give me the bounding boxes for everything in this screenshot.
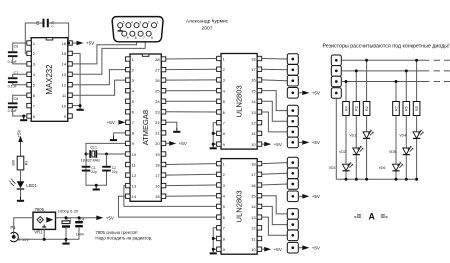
DB9 pin 5 [118, 20, 125, 27]
DB9 pin 9 [122, 31, 129, 40]
wire bus to R5 [416, 60, 418, 101]
U4 pin 10 stub [257, 247, 262, 251]
U2 pin 1 stub [27, 41, 32, 45]
wire U3 pin 16 to X2 pin 3 [262, 79, 288, 82]
U1 pin 27 stub [161, 67, 166, 71]
DB9 connector X1 body [112, 17, 163, 42]
U1 pin 19 stub [161, 152, 166, 156]
connector X5 pin 1 [287, 209, 298, 220]
svg-text:14: 14 [251, 204, 256, 209]
junction rail [365, 178, 368, 181]
U1 pin 11 stub [126, 162, 131, 166]
wire crystal right plate to ATMEGA8 pin 10 [97, 153, 125, 155]
IC U1 notch [142, 54, 149, 56]
U2 pin 4 stub [27, 72, 32, 76]
U4 pin 16 stub [257, 183, 262, 187]
ground at DB9 pin 5 [118, 28, 123, 32]
U1 pin 3 stub [126, 78, 131, 82]
capacitor C7 [8, 77, 18, 83]
resistor R5 [413, 102, 420, 116]
U3 pin 18 stub [257, 56, 262, 60]
wire to C2 [106, 154, 108, 166]
U2 pin 3 stub [27, 62, 32, 66]
junction rail/C3 [65, 216, 68, 219]
U1 pin 14 stub [126, 194, 131, 198]
svg-text:R1: R1 [24, 161, 28, 166]
U1 pin 2 stub [126, 67, 131, 71]
U1 pin 15 stub [161, 194, 166, 198]
svg-text:5: 5 [123, 20, 125, 24]
junction bus/R7 [395, 80, 398, 83]
bus row 2 dashed continuation [434, 70, 450, 72]
U4 pin 13 stub [257, 215, 262, 219]
wire ATMEGA8 pin 27 to U3 pin 2 [166, 68, 217, 70]
connector X5 pin 4 [287, 242, 298, 253]
wire X6 pin 4 to LED matrix common rail [335, 98, 337, 179]
U3 pin 15 stub [257, 88, 262, 92]
svg-text:12: 12 [62, 83, 67, 88]
wire R6 to VD5 [405, 116, 407, 148]
wire ATMEGA8 pin 15 to U4 pin 4 [166, 195, 217, 198]
wire ATMEGA8 pin 23 to U3 pin 6 [166, 111, 217, 113]
svg-text:ULN2803: ULN2803 [235, 190, 244, 222]
wire C6 to MAX232 pin 1 [13, 43, 27, 51]
U4 pin 3 stub [217, 183, 222, 187]
U1 pin 24 stub [161, 99, 166, 103]
capacitor C3 electrolytic [62, 221, 70, 228]
wire U3 pin 18 to X2 pin 1 [262, 58, 288, 61]
ground rail wire [18, 238, 79, 240]
junction C3 ground [65, 238, 68, 241]
svg-text:LED1: LED1 [26, 183, 37, 188]
svg-text:15: 15 [251, 194, 256, 199]
svg-text:20: 20 [155, 141, 160, 146]
+5V arrow at ATMEGA8 pin 20 [169, 141, 188, 146]
U1 pin 9 stub [126, 141, 131, 145]
U3 pin 1 stub [217, 56, 222, 60]
resistor R3 [353, 102, 360, 116]
wire C7 to MAX232 pin 5 [13, 83, 27, 85]
wire VR1 output +5V rail [56, 217, 97, 219]
LED VD5 [403, 146, 414, 155]
junction rail [345, 178, 348, 181]
svg-text:24: 24 [155, 99, 160, 104]
svg-text:14: 14 [251, 99, 256, 104]
wire X5 pin 4 to +5V [298, 247, 302, 249]
svg-text:1000µ 6.3V: 1000µ 6.3V [58, 208, 79, 213]
+5V arrow at MAX232 pin 16 [77, 41, 96, 46]
U4 pin 14 stub [257, 204, 262, 208]
ground at crystal [93, 185, 100, 190]
U1 pin 21 stub [161, 131, 166, 135]
bus wire row 2 from X6 [341, 70, 429, 72]
U2 pin 5 stub [27, 83, 32, 87]
U1 pin 7 stub [126, 120, 131, 124]
junction U4 pin 9 ground [212, 248, 215, 251]
U1 pin 22 stub [161, 120, 166, 124]
ground at LED1 [17, 197, 24, 202]
U1 pin 12 stub [126, 173, 131, 177]
svg-text:ATMEGA8: ATMEGA8 [141, 110, 150, 145]
svg-text:21: 21 [155, 131, 160, 136]
wire C4 to ground rail [78, 227, 80, 240]
wire C5 to MAX232 pin 2 [25, 23, 42, 53]
LED VD2 [353, 146, 364, 155]
wire X3 pin 4 to +5V [298, 141, 302, 143]
svg-text:16: 16 [155, 183, 160, 188]
svg-text:R5: R5 [415, 106, 419, 111]
connector X2 pin 2 [287, 65, 298, 76]
junction rail end [415, 178, 418, 181]
svg-text:VD1: VD1 [349, 134, 356, 138]
wire ATMEGA8 pin 26 to U3 pin 3 [166, 79, 217, 81]
junction bus/R4 [345, 80, 348, 83]
U4 pin 18 stub [257, 161, 262, 165]
svg-text:+5V: +5V [274, 142, 283, 147]
svg-text:13: 13 [132, 183, 137, 188]
LED VD4 [413, 129, 424, 138]
svg-text:6: 6 [151, 36, 153, 40]
wire R1 to LED1 [20, 170, 22, 181]
wire U4 pin 18 to X4 pin 1 [262, 163, 288, 164]
wire R2 to VD1 [366, 116, 368, 131]
svg-text:Qz1: Qz1 [90, 145, 97, 149]
wire U4 pin 15 to X5 pin 1 [262, 196, 288, 214]
U1 pin 23 stub [161, 110, 166, 114]
U1 pin 28 stub [161, 57, 166, 61]
U1 pin 17 stub [161, 173, 166, 177]
U3 pin 8 stub [217, 131, 222, 135]
wire U3 pin 8 to ground rail [213, 132, 216, 134]
svg-text:17: 17 [251, 172, 256, 177]
U3 pin 11 stub [257, 131, 262, 135]
junction U4 pin 8 ground [212, 237, 215, 240]
wire bus to R4 [345, 82, 347, 102]
svg-text:A: A [369, 212, 376, 222]
svg-text:+5V: +5V [179, 141, 188, 146]
U2 pin 9 stub [68, 114, 73, 118]
wire VR1 common to ground rail [43, 229, 45, 239]
U4 pin 15 stub [257, 194, 262, 198]
wire caps to ground rail [86, 172, 107, 186]
wire R3 to VD2 [355, 116, 357, 148]
svg-text:VD2: VD2 [339, 150, 346, 154]
connector X3 pin 2 [287, 116, 298, 127]
wire MAX232 pin16 to +5V [72, 42, 76, 44]
wire VD4 to common rail [416, 139, 418, 179]
U1 pin 10 stub [126, 152, 131, 156]
wire C8 to MAX232 pin 8 [13, 108, 27, 116]
IC U4 body [221, 159, 257, 255]
voltage regulator VR1 7805 body [33, 212, 56, 229]
wire R4 to VD3 [345, 116, 347, 164]
svg-text:7805 сильно греется!: 7805 сильно греется! [95, 230, 137, 235]
wire U3 pin 15 to X3 pin 1 [262, 91, 288, 111]
svg-text:R7: R7 [394, 106, 398, 111]
svg-text:R2: R2 [365, 106, 369, 111]
wire U4 pin 16 to X4 pin 3 [262, 184, 288, 185]
junction pin10/pin15 ground [79, 104, 82, 107]
connector X4 pin 1 [287, 157, 298, 168]
junction U3 pin 8 ground [212, 132, 215, 135]
ground at power section [62, 239, 69, 244]
U1 pin 20 stub [161, 141, 166, 145]
VR1 common pin symbol [42, 224, 46, 227]
wire rail to C4 [78, 218, 80, 221]
+5V arrow at connector X4 [302, 194, 321, 199]
U4 pin 2 stub [217, 172, 222, 176]
U1 pin 25 stub [161, 89, 166, 93]
svg-text:2007: 2007 [202, 26, 213, 32]
U4 pin 5 stub [217, 204, 222, 208]
U3 pin 17 stub [257, 67, 262, 71]
svg-text:9: 9 [127, 36, 129, 40]
wire ATMEGA8 pin 18 to U4 pin 1 [166, 163, 217, 166]
wire MAX232 pin15 to ground rail [72, 53, 80, 105]
svg-text:100n: 100n [76, 232, 84, 236]
LED VD1 [363, 129, 374, 138]
U2 pin 8 stub [27, 114, 32, 118]
resistor R1 [17, 156, 24, 170]
svg-text:+5V: +5V [312, 245, 321, 250]
svg-text:VR1: VR1 [34, 230, 43, 235]
svg-text:11: 11 [251, 236, 256, 241]
+5V arrow at connector X3 [302, 140, 321, 145]
DB9 pin 2 [143, 20, 150, 27]
wire X4 pin 4 to +5V [298, 195, 302, 197]
wire bus to R7 [395, 82, 397, 102]
svg-text:12: 12 [251, 121, 256, 126]
svg-text:22: 22 [155, 120, 160, 125]
U3 pin 6 stub [217, 110, 222, 114]
U3 pin 13 stub [257, 110, 262, 114]
DB9 pin 3 [134, 20, 141, 27]
DB9 pin 4 [126, 20, 133, 27]
junction bus/R3 [355, 69, 358, 72]
+5V arrow at U3 pin 10 [264, 142, 283, 147]
svg-text:22p: 22p [91, 170, 97, 174]
capacitor C5 [43, 19, 49, 28]
wire ATMEGA8 pin 24 to U3 pin 5 [166, 100, 217, 102]
svg-text:3: 3 [139, 20, 141, 24]
U1 pin 4 stub [126, 89, 131, 93]
svg-text:22p: 22p [112, 170, 118, 174]
resistor R2 [363, 102, 370, 116]
junction bus/R5 [415, 59, 418, 62]
+5V arrow at U4 pin 10 [264, 247, 283, 252]
U2 pin 13 stub [68, 72, 73, 76]
wire U3 pin 13 to X3 pin 3 [262, 112, 288, 132]
connector X4 pin 2 [287, 168, 298, 179]
capacitor C8 [8, 102, 18, 108]
DB9 pin 1 [152, 20, 159, 27]
capacitor C6 [8, 51, 18, 57]
svg-text:16: 16 [251, 183, 256, 188]
junction crystal right [105, 153, 108, 156]
wire VD2 to common rail [355, 155, 357, 179]
power jack P1 [10, 232, 18, 241]
svg-text:R3: R3 [355, 106, 359, 111]
wire U4 pin 9 to ground rail [213, 248, 216, 250]
connector X2 pin 1 [287, 54, 298, 65]
U2 pin 12 stub [68, 83, 73, 87]
svg-text:12: 12 [251, 226, 256, 231]
wire U3 pin 17 to X2 pin 2 [262, 68, 288, 71]
bus row 1 dashed continuation [434, 59, 450, 61]
DB9 pin 8 [130, 31, 137, 40]
connector X4 pin 4 [287, 191, 298, 202]
LED matrix common rail wire [336, 178, 416, 180]
svg-text:VD6: VD6 [379, 166, 386, 170]
svg-text:-=: -= [354, 212, 362, 221]
wire X2 pin 4 to +5V [298, 92, 302, 94]
svg-text:16: 16 [251, 78, 256, 83]
+5V arrow at connector X2 [302, 91, 321, 96]
capacitor C1 [82, 166, 91, 172]
junction rail [395, 178, 398, 181]
svg-text:15: 15 [251, 88, 256, 93]
bus wire row 3 from X6 [341, 81, 429, 83]
svg-text:+5V: +5V [106, 216, 115, 221]
svg-text:25: 25 [155, 89, 160, 94]
wire U3 pin 7 to ground rail [213, 123, 216, 144]
svg-text:Резисторы рассчитываются под к: Резисторы рассчитываются под конкретные … [323, 43, 450, 49]
U4 pin 1 stub [217, 161, 222, 165]
U4 pin 8 stub [217, 236, 222, 240]
svg-text:13: 13 [251, 215, 256, 220]
wire VD1 to common rail [366, 139, 368, 179]
U1 pin 16 stub [161, 183, 166, 187]
svg-text:15: 15 [62, 51, 67, 56]
svg-text:R6: R6 [405, 106, 409, 111]
wire U4 pin 10 to +5V [262, 248, 265, 250]
svg-text:7805: 7805 [35, 207, 45, 212]
DB9 pin 6 [146, 31, 153, 40]
U2 pin 14 stub [68, 62, 73, 66]
svg-text:Надо посадить на радиатор.: Надо посадить на радиатор. [95, 236, 152, 241]
svg-text:13: 13 [62, 72, 67, 77]
junction rail [405, 178, 408, 181]
svg-text:17: 17 [251, 67, 256, 72]
wire C6 to MAX232 pin 3 [13, 57, 27, 64]
bus row 3 dashed continuation [434, 81, 450, 83]
wire U4 pin 13 to X5 pin 3 [262, 217, 288, 235]
svg-text:4: 4 [131, 20, 133, 24]
svg-text:15: 15 [155, 194, 160, 199]
U4 pin 17 stub [257, 172, 262, 176]
junction rail [355, 178, 358, 181]
junction C8/pin8/ground [22, 115, 25, 118]
svg-text:+5V: +5V [274, 247, 283, 252]
connector X2 pin 3 [287, 75, 298, 86]
wire P1 tip to VR1 input [14, 218, 33, 235]
wire U3 pin 10 to +5V [262, 143, 265, 145]
U1 pin 18 stub [161, 162, 166, 166]
connector X4 pin 3 [287, 179, 298, 190]
svg-text:23: 23 [155, 110, 160, 115]
U3 pin 7 stub [217, 121, 222, 125]
svg-text:14: 14 [132, 194, 137, 199]
U3 pin 12 stub [257, 121, 262, 125]
wire bus to R2 [366, 60, 368, 101]
+5V arrow at regulator output [96, 216, 115, 221]
connector X6 pin 1 [331, 55, 341, 66]
wire rail to C3 [65, 218, 67, 221]
connector X2 pin 4 [287, 88, 298, 99]
U3 pin 14 stub [257, 99, 262, 103]
wire VD6 to common rail [395, 171, 397, 179]
svg-text:8: 8 [135, 36, 137, 40]
U4 pin 9 stub [217, 247, 222, 251]
svg-text:11: 11 [132, 162, 137, 167]
U4 pin 7 stub [217, 226, 222, 230]
svg-text:19: 19 [155, 152, 160, 157]
U3 pin 2 stub [217, 67, 222, 71]
wire C8 to MAX232 pin 6 [13, 95, 27, 102]
svg-text:C8: C8 [14, 97, 19, 101]
U1 pin 13 stub [126, 183, 131, 187]
svg-text:16: 16 [62, 41, 67, 46]
node +5V at MAX232 pin 16 [67, 42, 70, 45]
wire bus to R6 [405, 71, 407, 102]
+5V arrow into ATMEGA8 pin 7 [118, 120, 125, 125]
svg-text:C4: C4 [80, 218, 84, 222]
svg-text:C6: C6 [14, 45, 19, 49]
wire U4 pin 14 to X5 pin 2 [262, 206, 288, 224]
wire MAX232 pin13 to DB9 pin 2 [72, 28, 145, 74]
ground at C8 [20, 116, 27, 121]
crystal Qz1 [89, 150, 97, 158]
svg-text:18: 18 [155, 162, 160, 167]
svg-text:28: 28 [155, 57, 160, 62]
junction crystal left [85, 153, 88, 156]
U3 pin 9 stub [217, 142, 222, 146]
U2 pin 2 stub [27, 51, 32, 55]
IC U2 notch [46, 38, 53, 40]
svg-text:ULN2803: ULN2803 [235, 85, 244, 117]
svg-text:MAX232: MAX232 [45, 65, 54, 95]
wire +5V to resistor R1 [20, 142, 22, 156]
svg-text:26: 26 [155, 78, 160, 83]
svg-text:13: 13 [251, 110, 256, 115]
connector X6 pin 3 [331, 76, 341, 87]
svg-text:300: 300 [12, 160, 16, 166]
connector X5 pin 2 [287, 219, 298, 230]
U2 pin 11 stub [68, 93, 73, 97]
svg-text:17: 17 [155, 173, 160, 178]
connector X6 pin 2 [331, 66, 341, 77]
wire C5 to +5V node [49, 23, 69, 43]
U3 pin 16 stub [257, 78, 262, 82]
ground at U3 [210, 144, 217, 149]
wire U4 pin 17 to X4 pin 2 [262, 173, 288, 174]
+5V arrow up at LED chain [18, 136, 23, 142]
wire C3 to ground rail [65, 227, 67, 239]
+5V arrow at connector X5 [302, 245, 321, 250]
svg-text:C3: C3 [67, 218, 71, 222]
U4 pin 6 stub [217, 215, 222, 219]
U4 pin 4 stub [217, 194, 222, 198]
U2 pin 7 stub [27, 103, 32, 107]
wire MAX232 pin12 to ATMEGA8 pin 2 [72, 70, 125, 85]
wire C7 to MAX232 pin 4 [13, 74, 27, 77]
wire ATMEGA8 pin 17 to U4 pin 2 [166, 173, 217, 176]
U4 pin 12 stub [257, 226, 262, 230]
svg-text:18: 18 [251, 161, 256, 166]
bus wire row 1 from X6 [341, 59, 429, 61]
U3 pin 5 stub [217, 99, 222, 103]
svg-text:+5V: +5V [86, 41, 95, 46]
